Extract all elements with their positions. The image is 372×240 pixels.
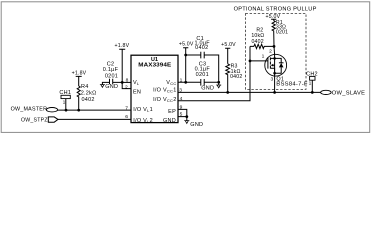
svg-text:8: 8 [126,78,129,84]
svg-text:0.1µF: 0.1µF [103,67,119,73]
svg-text:MAX3394E: MAX3394E [138,62,171,68]
svg-text:0201: 0201 [196,72,209,78]
svg-text:GND: GND [105,84,118,90]
svg-text:2: 2 [269,48,272,54]
svg-text:0402: 0402 [82,97,95,103]
svg-text:I/O VCC1: I/O VCC1 [153,88,176,94]
svg-text:2: 2 [125,84,128,90]
svg-text:OW_STPZ: OW_STPZ [21,117,48,123]
svg-text:I/O VCC2: I/O VCC2 [153,97,176,103]
svg-text:BSS84-7-F: BSS84-7-F [276,81,308,87]
svg-text:VCC: VCC [166,80,176,86]
svg-text:+5.0V: +5.0V [221,42,236,48]
svg-text:1: 1 [63,100,66,106]
svg-text:0402: 0402 [230,74,242,80]
svg-text:OPTIONAL STRONG PULLUP: OPTIONAL STRONG PULLUP [234,6,317,12]
svg-text:1: 1 [309,81,312,87]
svg-text:+5.0V: +5.0V [179,42,194,48]
svg-text:6: 6 [125,114,128,120]
svg-text:GND: GND [190,122,203,128]
svg-text:EP: EP [168,109,176,115]
svg-text:0201: 0201 [105,74,118,80]
svg-text:3: 3 [270,76,273,82]
svg-text:GND: GND [163,118,176,124]
svg-text:OW_MASTER: OW_MASTER [11,106,48,112]
svg-text:7: 7 [125,105,128,111]
svg-text:I/O VL1: I/O VL1 [133,107,153,113]
svg-text:0201: 0201 [276,29,288,35]
svg-text:+1.8V: +1.8V [72,71,87,77]
svg-text:R4: R4 [81,84,89,90]
svg-text:OW_SLAVE: OW_SLAVE [332,91,365,97]
svg-text:I/O VL2: I/O VL2 [133,118,153,124]
svg-text:+1.8V: +1.8V [115,43,130,49]
svg-text:EN: EN [133,90,141,96]
svg-text:2.2kΩ: 2.2kΩ [81,91,97,97]
svg-text:GND: GND [201,86,214,92]
svg-text:VL: VL [133,80,140,86]
svg-text:1: 1 [262,54,265,60]
svg-text:0402: 0402 [195,45,208,51]
